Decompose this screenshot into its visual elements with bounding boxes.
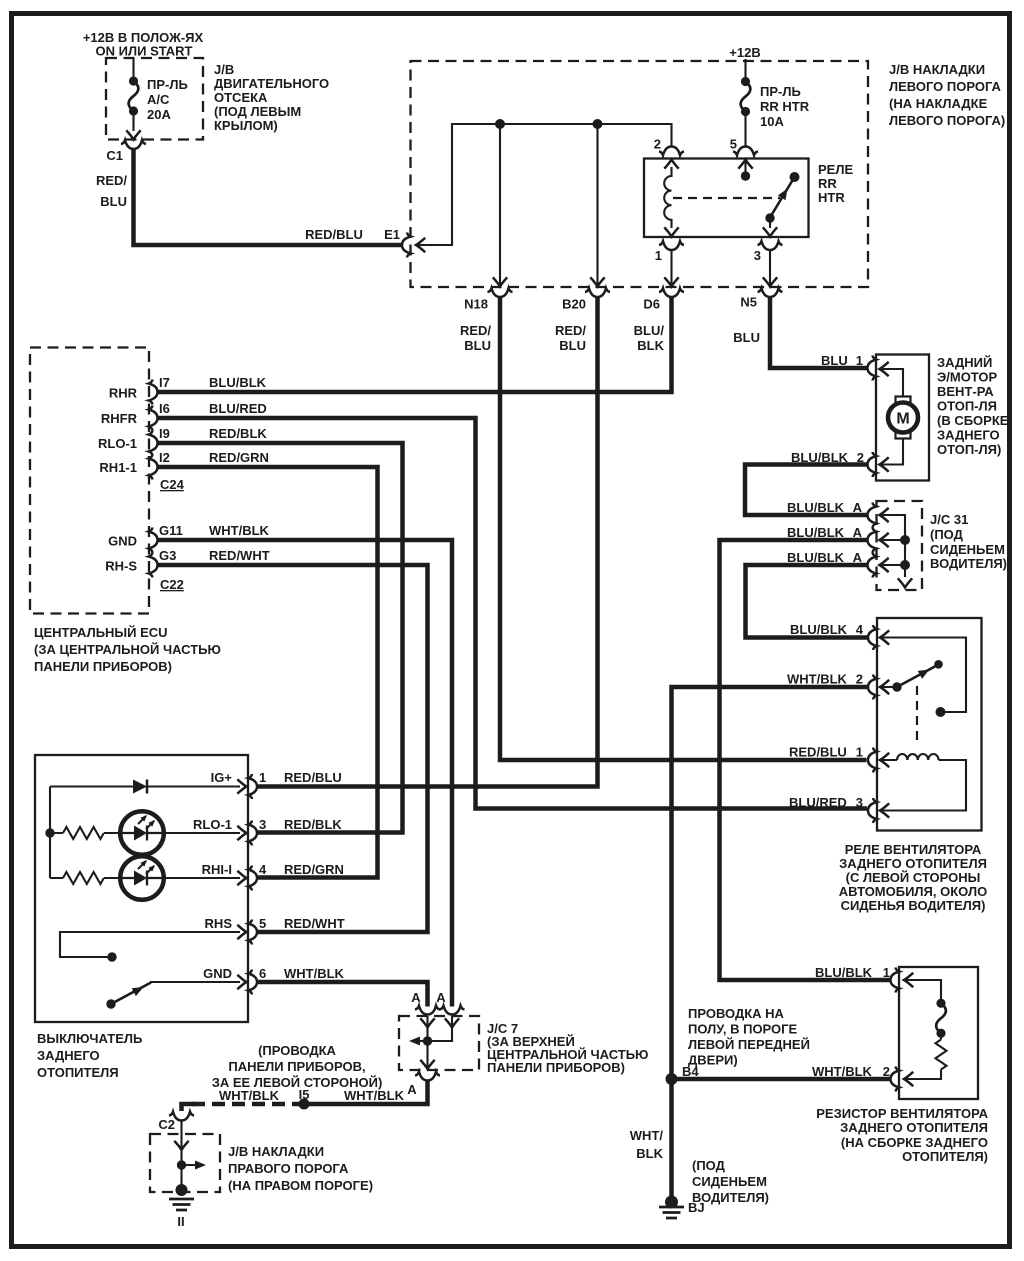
- fan relay dashed link: [916, 686, 918, 742]
- svg-text:RED/: RED/: [460, 323, 491, 338]
- svg-text:ЛЕВОГО ПОРОГА: ЛЕВОГО ПОРОГА: [889, 79, 1002, 94]
- wire +12V feed into RR HTR fuse: [744, 59, 746, 77]
- svg-text:ВОДИТЕЛЯ): ВОДИТЕЛЯ): [930, 556, 1007, 571]
- connector E1: [402, 233, 411, 258]
- svg-text:ДВИГАТЕЛЬНОГО: ДВИГАТЕЛЬНОГО: [214, 76, 329, 91]
- J/B right sill internals: [182, 1121, 199, 1188]
- svg-text:RHS: RHS: [205, 916, 233, 931]
- wire E1 to relay pin 2 bus inside J/B: [416, 124, 672, 245]
- svg-text:СИДЕНЬЕМ: СИДЕНЬЕМ: [930, 542, 1005, 557]
- svg-text:СИДЕНЬЕМ: СИДЕНЬЕМ: [692, 1174, 767, 1189]
- svg-text:5: 5: [730, 137, 737, 152]
- J/B left sill junction box (dashed): [411, 61, 869, 287]
- svg-text:Э/МОТОР: Э/МОТОР: [937, 370, 998, 385]
- svg-text:RHR: RHR: [109, 386, 138, 401]
- svg-text:ЛЕВОЙ ПЕРЕДНЕЙ: ЛЕВОЙ ПЕРЕДНЕЙ: [688, 1037, 810, 1052]
- arrow at motor pin 2: [880, 457, 889, 471]
- svg-text:BLU/RED: BLU/RED: [209, 401, 267, 416]
- svg-text:ПР-ЛЬ: ПР-ЛЬ: [147, 77, 188, 92]
- svg-text:КРЫЛОМ): КРЫЛОМ): [214, 118, 278, 133]
- wire WHT/BLK fan relay pin 2 to B4 to BJ ground: [672, 687, 868, 1197]
- svg-text:A: A: [411, 990, 421, 1005]
- J/C7 internals: [416, 1016, 452, 1067]
- wire WHT/BLK I5 splice to C2 (dashed harness): [190, 1102, 305, 1107]
- svg-text:РЕЗИСТОР ВЕНТИЛЯТОРА: РЕЗИСТОР ВЕНТИЛЯТОРА: [816, 1106, 988, 1121]
- wire A/C fuse to C1 arrow: [132, 115, 134, 131]
- ECU pin connectors: [149, 380, 158, 405]
- svg-text:C2: C2: [158, 1117, 175, 1132]
- connector motor pin 1: [868, 356, 877, 381]
- svg-text:J/B НАКЛАДКИ: J/B НАКЛАДКИ: [889, 62, 985, 77]
- connectors resistor pins 1,2: [891, 968, 900, 993]
- rear heater fan resistor box: [899, 967, 978, 1099]
- J/C 7 joint connector box (dashed): [399, 1016, 479, 1070]
- svg-text:+12В: +12В: [729, 45, 760, 60]
- switch row GND: [150, 981, 240, 983]
- svg-text:G3: G3: [159, 548, 176, 563]
- wire RED/BLU B20 to switch pin 1: [256, 296, 598, 787]
- svg-text:BLU/BLK: BLU/BLK: [790, 622, 848, 637]
- svg-text:ПАНЕЛИ ПРИБОРОВ): ПАНЕЛИ ПРИБОРОВ): [487, 1060, 625, 1075]
- connector relay pin 5: [733, 147, 758, 156]
- svg-text:BJ: BJ: [688, 1200, 705, 1215]
- svg-text:A: A: [436, 990, 446, 1005]
- svg-text:WHT/BLK: WHT/BLK: [812, 1064, 873, 1079]
- svg-text:B20: B20: [562, 297, 586, 312]
- connector relay pin 3: [758, 241, 783, 250]
- svg-text:RLO-1: RLO-1: [193, 817, 232, 832]
- svg-text:1: 1: [856, 353, 863, 368]
- rear heater blower motor box: [876, 355, 929, 481]
- wire BLU/BLK D6 to ECU pin I7: [157, 296, 672, 392]
- motor M symbol: [888, 397, 918, 439]
- LED RHI-I: [120, 856, 164, 900]
- wire BLU N5 to motor pin 1: [770, 296, 867, 368]
- arrow into C1: [126, 130, 140, 139]
- I5 splice dot: [299, 1099, 310, 1110]
- svg-text:BLU/BLK: BLU/BLK: [787, 500, 845, 515]
- resistor internals: [904, 980, 947, 1079]
- svg-text:5: 5: [259, 916, 266, 931]
- svg-text:RED/WHT: RED/WHT: [209, 548, 270, 563]
- connector N5: [758, 288, 783, 297]
- svg-text:A: A: [853, 525, 863, 540]
- WIRES-THIN: [134, 59, 771, 286]
- svg-text:20А: 20А: [147, 107, 171, 122]
- svg-text:2: 2: [883, 1064, 890, 1079]
- svg-text:GND: GND: [108, 534, 137, 549]
- wire WHT/BLK ECU G11 to J/C7 pin A right: [157, 540, 453, 1007]
- relay coil arrow up: [664, 160, 678, 169]
- wire +12V feed into A/C fuse: [132, 59, 134, 77]
- central ECU box (dashed): [30, 348, 149, 614]
- svg-text:E1: E1: [384, 227, 400, 242]
- svg-text:RED/: RED/: [555, 323, 586, 338]
- svg-text:C22: C22: [160, 577, 184, 592]
- svg-text:B4: B4: [682, 1064, 699, 1079]
- svg-text:N5: N5: [740, 295, 757, 310]
- wire relay pin 1 to D6: [670, 250, 672, 285]
- J/C 31 joint connector box (dashed): [877, 501, 923, 590]
- svg-text:(ПОД: (ПОД: [930, 527, 964, 542]
- switch pole dot: [107, 952, 116, 961]
- svg-text:RED/BLK: RED/BLK: [209, 426, 267, 441]
- svg-text:N18: N18: [464, 297, 488, 312]
- svg-text:ОТОП-ЛЯ: ОТОП-ЛЯ: [937, 399, 997, 414]
- arrows into J/B bottom connectors: [493, 277, 507, 286]
- svg-text:A: A: [853, 500, 863, 515]
- connector D6: [659, 288, 684, 297]
- svg-text:1: 1: [856, 745, 863, 760]
- svg-text:1: 1: [883, 965, 890, 980]
- svg-text:RED/BLK: RED/BLK: [284, 817, 342, 832]
- svg-text:BLU/RED: BLU/RED: [789, 795, 847, 810]
- svg-text:ON ИЛИ START: ON ИЛИ START: [96, 44, 193, 59]
- svg-text:BLU/: BLU/: [634, 323, 665, 338]
- svg-text:1: 1: [259, 770, 266, 785]
- svg-text:СИДЕНЬЯ ВОДИТЕЛЯ): СИДЕНЬЯ ВОДИТЕЛЯ): [841, 898, 986, 913]
- svg-text:ПР-ЛЬ: ПР-ЛЬ: [760, 84, 801, 99]
- arrow at E1: [416, 238, 425, 252]
- connector C2: [169, 1112, 194, 1121]
- svg-text:(НА СБОРКЕ ЗАДНЕГО: (НА СБОРКЕ ЗАДНЕГО: [841, 1135, 988, 1150]
- svg-text:2: 2: [857, 450, 864, 465]
- svg-text:BLU/BLK: BLU/BLK: [209, 375, 267, 390]
- arrow at motor pin 1: [880, 362, 889, 376]
- svg-text:BLK: BLK: [637, 338, 664, 353]
- svg-text:RED/BLU: RED/BLU: [284, 770, 342, 785]
- svg-text:ОТОП-ЛЯ): ОТОП-ЛЯ): [937, 442, 1001, 457]
- svg-text:C24: C24: [160, 477, 185, 492]
- svg-text:I5: I5: [299, 1087, 310, 1102]
- junction dot bus-N18: [495, 119, 505, 129]
- svg-text:ВЫКЛЮЧАТЕЛЬ: ВЫКЛЮЧАТЕЛЬ: [37, 1031, 142, 1046]
- svg-text:RH1-1: RH1-1: [99, 460, 137, 475]
- wire WHT/BLK switch pin 6 to J/C7 pin A left: [256, 982, 428, 1007]
- WIRES-THICK: [134, 148, 890, 1197]
- wire relay pin 3 to N5: [769, 250, 771, 285]
- svg-text:2: 2: [856, 672, 863, 687]
- svg-text:II: II: [177, 1214, 184, 1229]
- fan relay contact dot: [936, 707, 946, 717]
- svg-text:АВТОМОБИЛЯ, ОКОЛО: АВТОМОБИЛЯ, ОКОЛО: [839, 884, 987, 899]
- svg-text:J/B НАКЛАДКИ: J/B НАКЛАДКИ: [228, 1144, 324, 1159]
- wire RR HTR fuse to relay pin 5: [744, 116, 746, 147]
- switch row RHI-I resistor: [50, 872, 240, 884]
- switch diode IG+: [133, 780, 147, 794]
- switch row RLO-1 resistor: [50, 827, 240, 839]
- svg-text:D6: D6: [643, 297, 660, 312]
- svg-text:(ПОД ЛЕВЫМ: (ПОД ЛЕВЫМ: [214, 104, 301, 119]
- switch pin connectors: [248, 774, 257, 799]
- svg-text:BLU/BLK: BLU/BLK: [791, 450, 849, 465]
- wire bus to B20: [596, 124, 598, 285]
- svg-text:2: 2: [654, 137, 661, 152]
- fuse ПР-ЛЬ RR HTR 10А: [741, 77, 751, 116]
- switch arm: [106, 999, 115, 1008]
- svg-text:BLU: BLU: [464, 338, 491, 353]
- svg-text:ЗАДНЕГО: ЗАДНЕГО: [937, 428, 1000, 443]
- ground II: [176, 1184, 188, 1196]
- wire RED/BLU N18 to fan relay pin 1: [500, 296, 867, 760]
- fan relay internal wiring: [880, 638, 966, 811]
- svg-text:А/С: А/С: [147, 92, 170, 107]
- svg-text:ПАНЕЛИ ПРИБОРОВ): ПАНЕЛИ ПРИБОРОВ): [34, 659, 172, 674]
- relay coil: [664, 167, 671, 228]
- BOXES: [30, 58, 922, 1192]
- wire WHT/BLK B4 to resistor pin 2: [672, 1077, 890, 1082]
- switch row arrows: [237, 779, 246, 793]
- svg-text:(С ЛЕВОЙ СТОРОНЫ: (С ЛЕВОЙ СТОРОНЫ: [846, 870, 981, 885]
- svg-text:(В СБОРКЕ: (В СБОРКЕ: [937, 413, 1009, 428]
- svg-text:ЗАДНЕГО ОТОПИТЕЛЯ: ЗАДНЕГО ОТОПИТЕЛЯ: [839, 856, 987, 871]
- svg-text:WHT/BLK: WHT/BLK: [284, 966, 345, 981]
- svg-text:(ПОД: (ПОД: [692, 1158, 726, 1173]
- svg-text:РЕЛЕ: РЕЛЕ: [818, 162, 853, 177]
- svg-text:WHT/: WHT/: [630, 1128, 664, 1143]
- svg-text:ОТСЕКА: ОТСЕКА: [214, 90, 268, 105]
- svg-text:ПОЛУ, В ПОРОГЕ: ПОЛУ, В ПОРОГЕ: [688, 1022, 798, 1037]
- svg-text:ОТОПИТЕЛЯ: ОТОПИТЕЛЯ: [37, 1065, 119, 1080]
- svg-text:C1: C1: [106, 148, 123, 163]
- relay pin 5 contact: [744, 160, 746, 172]
- svg-text:RHI-I: RHI-I: [202, 862, 232, 877]
- ground BJ: [665, 1196, 678, 1209]
- connector C1: [121, 140, 146, 149]
- svg-text:ЗАДНЕГО: ЗАДНЕГО: [37, 1048, 100, 1063]
- relay switch arm: [790, 172, 800, 182]
- junction dot bus-B20: [593, 119, 603, 129]
- svg-text:RED/GRN: RED/GRN: [209, 450, 269, 465]
- svg-text:WHT/BLK: WHT/BLK: [344, 1088, 405, 1103]
- wire RED/GRN ECU I2 to switch pin 4: [157, 467, 378, 878]
- svg-text:BLU: BLU: [733, 330, 760, 345]
- connector N18: [488, 288, 513, 297]
- svg-text:G11: G11: [159, 523, 183, 538]
- wire bus to N18: [499, 124, 501, 285]
- relay actuation dashed link: [673, 197, 780, 199]
- svg-text:ЗАДНЕГО ОТОПИТЕЛЯ: ЗАДНЕГО ОТОПИТЕЛЯ: [840, 1120, 988, 1135]
- svg-text:(НА ПРАВОМ ПОРОГЕ): (НА ПРАВОМ ПОРОГЕ): [228, 1178, 373, 1193]
- wire BLU/BLK motor pin 2 to J/C31 pin A1: [745, 465, 867, 516]
- svg-text:RLO-1: RLO-1: [98, 436, 137, 451]
- svg-text:WHT/BLK: WHT/BLK: [787, 672, 848, 687]
- wire WHT/BLK J/C7 pin A down to I5 splice: [303, 1080, 428, 1105]
- svg-text:RH-S: RH-S: [105, 559, 137, 574]
- connector relay pin 2: [659, 147, 684, 156]
- relay RR HTR box: [644, 159, 809, 238]
- svg-text:GND: GND: [203, 966, 232, 981]
- svg-text:IG+: IG+: [211, 770, 233, 785]
- svg-text:BLU/BLK: BLU/BLK: [815, 965, 873, 980]
- svg-text:4: 4: [259, 862, 267, 877]
- svg-text:BLU: BLU: [559, 338, 586, 353]
- svg-text:ЛЕВОГО ПОРОГА): ЛЕВОГО ПОРОГА): [889, 113, 1005, 128]
- svg-text:6: 6: [259, 966, 266, 981]
- svg-text:BLK: BLK: [636, 1146, 663, 1161]
- switch left bus: [49, 787, 51, 879]
- svg-text:I9: I9: [159, 426, 170, 441]
- svg-text:ЗАДНИЙ: ЗАДНИЙ: [937, 355, 992, 370]
- relay pin 5 arrow up: [738, 160, 752, 169]
- svg-text:10А: 10А: [760, 114, 784, 129]
- svg-text:BLU: BLU: [821, 353, 848, 368]
- wire RED/BLK ECU I9 to switch pin 3: [157, 443, 403, 833]
- svg-text:RED/GRN: RED/GRN: [284, 862, 344, 877]
- switch internal wiring: [50, 787, 240, 983]
- wire BLU/BLK J/C31 pin A2 to resistor pin 1: [720, 540, 890, 980]
- fan relay coil: [897, 754, 939, 760]
- svg-text:HTR: HTR: [818, 190, 845, 205]
- svg-text:РЕЛЕ ВЕНТИЛЯТОРА: РЕЛЕ ВЕНТИЛЯТОРА: [845, 842, 982, 857]
- svg-text:WHT/BLK: WHT/BLK: [219, 1088, 280, 1103]
- wire RED/WHT ECU G3 to switch pin 5: [157, 565, 428, 932]
- rear heater switch box: [35, 755, 248, 1022]
- svg-text:1: 1: [655, 248, 662, 263]
- svg-text:A: A: [407, 1082, 417, 1097]
- svg-text:BLU/BLK: BLU/BLK: [787, 550, 845, 565]
- rear heater fan relay box: [877, 618, 982, 831]
- svg-text:RED/WHT: RED/WHT: [284, 916, 345, 931]
- relay coil arrow down: [664, 227, 678, 236]
- switch row IG+ with diode: [50, 785, 240, 787]
- svg-text:I2: I2: [159, 450, 170, 465]
- svg-text:RR: RR: [818, 176, 837, 191]
- svg-text:BLU: BLU: [100, 194, 127, 209]
- svg-text:I7: I7: [159, 375, 170, 390]
- fuse ПР-ЛЬ А/С 20А: [129, 76, 139, 115]
- svg-text:RED/: RED/: [96, 173, 127, 188]
- svg-text:RR HTR: RR HTR: [760, 99, 810, 114]
- connector B20: [585, 288, 610, 297]
- LED RLO-1: [120, 811, 164, 855]
- B4 junction dot: [666, 1073, 678, 1085]
- svg-text:ОТОПИТЕЛЯ): ОТОПИТЕЛЯ): [902, 1149, 988, 1164]
- fan relay switch arm: [892, 682, 901, 691]
- motor internal wiring: [880, 369, 903, 465]
- svg-text:ВЕНТ-РА: ВЕНТ-РА: [937, 384, 994, 399]
- svg-text:3: 3: [856, 795, 863, 810]
- svg-text:M: M: [896, 411, 909, 428]
- svg-text:J/B: J/B: [214, 62, 234, 77]
- wire stub at C2: [182, 1104, 197, 1111]
- svg-text:RED/BLU: RED/BLU: [789, 745, 847, 760]
- J/B engine compartment fuse box (dashed): [106, 58, 203, 140]
- connectors J/C31 pins A: [868, 503, 877, 528]
- svg-text:ЦЕНТРАЛЬНЫЙ ECU: ЦЕНТРАЛЬНЫЙ ECU: [34, 625, 168, 640]
- svg-text:ПАНЕЛИ ПРИБОРОВ,: ПАНЕЛИ ПРИБОРОВ,: [228, 1059, 365, 1074]
- svg-text:J/C 31: J/C 31: [930, 512, 968, 527]
- connectors fan relay pins 4,2,1,3: [868, 625, 877, 650]
- switch row RHS: [60, 932, 240, 957]
- svg-text:BLU/BLK: BLU/BLK: [787, 525, 845, 540]
- wire BLU/RED ECU I6 to fan relay pin 3: [157, 418, 868, 809]
- connector motor pin 2: [868, 452, 877, 477]
- connector relay pin 1: [659, 241, 684, 250]
- svg-text:ПРАВОГО ПОРОГА: ПРАВОГО ПОРОГА: [228, 1161, 349, 1176]
- svg-text:3: 3: [754, 248, 761, 263]
- svg-text:(ПРОВОДКА: (ПРОВОДКА: [258, 1043, 336, 1058]
- svg-text:(ЗА ЦЕНТРАЛЬНОЙ ЧАСТЬЮ: (ЗА ЦЕНТРАЛЬНОЙ ЧАСТЬЮ: [34, 642, 221, 657]
- svg-text:WHT/BLK: WHT/BLK: [209, 523, 270, 538]
- arrows at fan relay pins: [880, 630, 889, 644]
- svg-text:I6: I6: [159, 401, 170, 416]
- svg-text:A: A: [853, 550, 863, 565]
- svg-text:ПРОВОДКА НА: ПРОВОДКА НА: [688, 1006, 785, 1021]
- J/B right sill junction box (dashed): [150, 1134, 220, 1192]
- wire BLU/BLK J/C31 pin A3 to fan relay pin 4: [746, 565, 868, 638]
- switch bus junction dot: [45, 828, 54, 837]
- svg-text:4: 4: [856, 622, 864, 637]
- svg-text:3: 3: [259, 817, 266, 832]
- svg-text:RED/BLU: RED/BLU: [305, 227, 363, 242]
- svg-text:(НА НАКЛАДКЕ: (НА НАКЛАДКЕ: [889, 96, 988, 111]
- wire RED/BLU C1 to E1: [134, 148, 404, 245]
- svg-text:RHFR: RHFR: [101, 411, 138, 426]
- connectors J/C7 pins A: [415, 1006, 440, 1015]
- J/C31 internal wiring: [880, 515, 905, 577]
